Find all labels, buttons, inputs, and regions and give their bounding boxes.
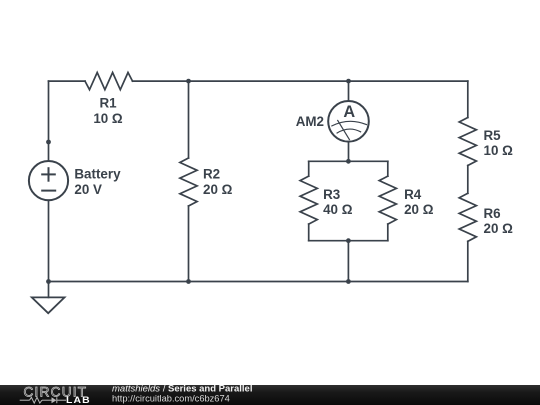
resistor R6 bbox=[459, 193, 476, 241]
ammeter AM2 bbox=[328, 101, 369, 142]
wire R3 leg lower bbox=[308, 224, 310, 241]
node junction bottom R2 bbox=[186, 279, 191, 284]
wire R4 leg lower bbox=[387, 224, 389, 241]
logo schematic glyph: wire, resistor, diode bbox=[20, 397, 66, 403]
logo CircuitLab wordmark bbox=[20, 384, 91, 405]
svg-text:R6: R6 bbox=[484, 206, 501, 221]
svg-text:A: A bbox=[343, 103, 355, 121]
node junction battery top bbox=[46, 140, 51, 145]
resistor R3 bbox=[300, 176, 317, 224]
wire R4 leg upper bbox=[387, 161, 389, 176]
node junction parallel top bbox=[346, 159, 351, 164]
svg-text:http://circuitlab.com/c6bz674: http://circuitlab.com/c6bz674 bbox=[112, 393, 230, 403]
svg-text:40 Ω: 40 Ω bbox=[323, 202, 353, 217]
resistor R4 bbox=[379, 176, 396, 224]
wire middle drop to bottom rail bbox=[347, 241, 349, 282]
svg-text:20 V: 20 V bbox=[74, 182, 102, 197]
svg-text:20 Ω: 20 Ω bbox=[404, 202, 434, 217]
wire top horizontal to right bbox=[133, 80, 468, 82]
resistor R1 bbox=[85, 73, 133, 90]
node junction ground bbox=[46, 279, 51, 284]
wire right vertical top bbox=[467, 81, 469, 117]
wire top-left horizontal bbox=[49, 80, 86, 82]
svg-text:R2: R2 bbox=[203, 166, 220, 181]
ground bbox=[32, 297, 65, 313]
wire parallel block bottom bbox=[309, 240, 388, 242]
svg-text:Battery: Battery bbox=[74, 167, 121, 182]
voltage source Battery bbox=[29, 161, 68, 200]
svg-text:20 Ω: 20 Ω bbox=[484, 221, 514, 236]
svg-text:10 Ω: 10 Ω bbox=[93, 111, 123, 126]
svg-text:10 Ω: 10 Ω bbox=[484, 143, 514, 158]
wire ground stem bbox=[48, 282, 50, 298]
wire ammeter branch upper bbox=[348, 81, 350, 101]
wire parallel block top bbox=[309, 160, 388, 162]
wire ammeter to parallel block bbox=[348, 142, 350, 162]
wire left vertical upper bbox=[48, 81, 50, 161]
wire bottom horizontal bbox=[49, 281, 468, 283]
wire left vertical lower bbox=[48, 200, 50, 281]
node junction top R2 bbox=[186, 79, 191, 84]
svg-text:R1: R1 bbox=[99, 95, 117, 110]
wire R2 branch upper bbox=[188, 81, 190, 158]
svg-text:R5: R5 bbox=[484, 128, 502, 143]
wire between R5 and R6 bbox=[467, 166, 469, 194]
wire R2 branch lower bbox=[188, 206, 190, 282]
resistor R2 bbox=[180, 158, 197, 206]
svg-text:20 Ω: 20 Ω bbox=[203, 182, 233, 197]
node junction top ammeter bbox=[346, 79, 351, 84]
svg-text:LAB: LAB bbox=[66, 395, 91, 405]
wire right vertical bottom bbox=[467, 241, 469, 281]
node junction bottom middle bbox=[346, 279, 351, 284]
resistor R5 bbox=[459, 118, 476, 166]
svg-text:AM2: AM2 bbox=[296, 114, 324, 129]
node junction parallel bottom bbox=[346, 238, 351, 243]
svg-text:R4: R4 bbox=[404, 187, 422, 202]
svg-text:R3: R3 bbox=[323, 187, 340, 202]
wire R3 leg upper bbox=[308, 161, 310, 176]
